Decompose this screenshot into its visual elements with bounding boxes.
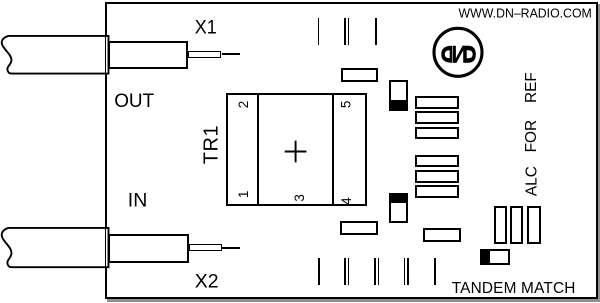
connector X2 pin bbox=[222, 247, 241, 249]
top jumper wire single bbox=[318, 18, 320, 45]
svg-text:IN: IN bbox=[128, 190, 148, 212]
svg-text:REF: REF bbox=[523, 72, 540, 103]
svg-text:2: 2 bbox=[236, 101, 251, 109]
resistor stack 1 bbox=[415, 96, 459, 109]
bottom jumper double 1b bbox=[348, 258, 350, 285]
bottom jumper double 2b bbox=[378, 258, 380, 285]
board shadow right bbox=[598, 4, 600, 302]
logo circle bbox=[434, 28, 482, 76]
bottom jumper double 2a bbox=[374, 258, 376, 285]
connector X2 body bbox=[108, 234, 189, 263]
pad column B bbox=[510, 206, 523, 244]
bottom jumper single right bbox=[434, 258, 436, 285]
top jumper wire single right bbox=[375, 18, 377, 45]
resistor stack 5 bbox=[415, 170, 459, 183]
svg-text:3: 3 bbox=[292, 194, 307, 202]
resistor right mid bbox=[423, 228, 460, 242]
resistor stack 6 bbox=[415, 185, 459, 198]
polarized capacitor C2 (black top) bbox=[389, 193, 408, 223]
polarized capacitor C1 (black bottom) bbox=[389, 80, 408, 111]
bottom jumper double 3b bbox=[407, 258, 409, 285]
top jumper wire double a bbox=[344, 18, 346, 45]
transformer TR1 outline bbox=[226, 93, 368, 207]
resistor top (R) bbox=[341, 68, 378, 83]
board shadow bottom bbox=[107, 299, 600, 302]
svg-text:4: 4 bbox=[339, 197, 354, 205]
resistor stack 2 bbox=[415, 111, 459, 124]
TR1 winding divider right bbox=[332, 95, 335, 205]
pad column C bbox=[527, 206, 541, 244]
TR1 center cross bbox=[284, 140, 308, 164]
bottom jumper wire single left bbox=[318, 258, 320, 285]
board left edge over cable gap (X2) bbox=[105, 227, 107, 269]
bottom jumper double 3a bbox=[404, 258, 406, 285]
connector X1 pin bbox=[222, 53, 241, 55]
DN logo bbox=[430, 24, 488, 82]
connector X1 body bbox=[108, 41, 188, 69]
cable to X1 (coax with break squiggle) bbox=[0, 30, 115, 80]
svg-text:X1: X1 bbox=[195, 17, 217, 39]
board left edge over cable gap (X1) bbox=[105, 33, 107, 77]
cable to X2 (coax with break squiggle) bbox=[0, 222, 115, 274]
svg-text:TR1: TR1 bbox=[200, 125, 222, 164]
top jumper wire double b bbox=[348, 18, 350, 45]
connector X2 tip bbox=[189, 244, 222, 251]
connector X1 tip bbox=[188, 51, 222, 57]
polarized capacitor C3 (black left) bbox=[480, 249, 510, 265]
svg-text:1: 1 bbox=[236, 191, 251, 199]
svg-text:X2: X2 bbox=[195, 270, 219, 292]
logo glyph D bbox=[463, 46, 476, 63]
logo glyph mirrored D bbox=[441, 46, 452, 63]
svg-text:ALC: ALC bbox=[524, 166, 541, 196]
svg-text:FOR: FOR bbox=[523, 120, 540, 153]
svg-text:5: 5 bbox=[339, 101, 354, 109]
resistor stack 3 bbox=[415, 127, 459, 140]
svg-text:TANDEM MATCH: TANDEM MATCH bbox=[452, 280, 576, 297]
logo glyph N bbox=[453, 46, 456, 63]
bottom jumper double 1a bbox=[344, 258, 346, 285]
svg-text:WWW.DN–RADIO.COM: WWW.DN–RADIO.COM bbox=[459, 6, 592, 20]
resistor stack 4 bbox=[415, 155, 459, 168]
svg-text:OUT: OUT bbox=[114, 90, 154, 112]
TR1 winding divider left bbox=[257, 95, 259, 205]
resistor under TR1 bbox=[340, 221, 378, 235]
pad column A bbox=[494, 206, 507, 244]
